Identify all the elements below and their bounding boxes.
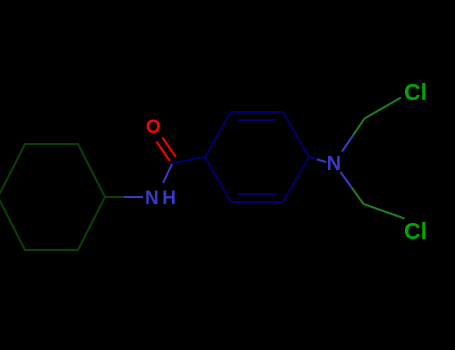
svg-text:O: O <box>146 117 161 138</box>
svg-text:Cl: Cl <box>404 79 427 105</box>
svg-text:Cl: Cl <box>404 218 427 244</box>
svg-text:NH: NH <box>145 188 179 209</box>
svg-text:N: N <box>327 153 341 175</box>
